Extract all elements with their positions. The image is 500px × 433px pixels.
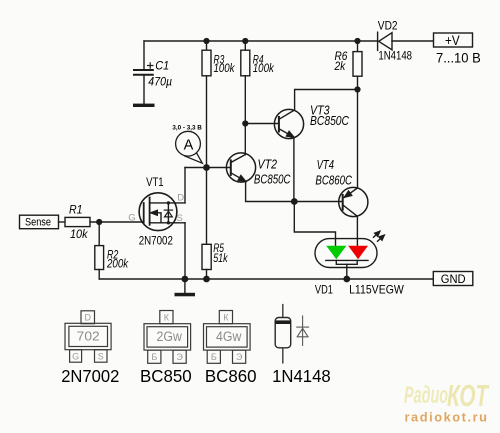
wire R4 top lead	[244, 41, 246, 50]
1N4148 diode symbol line	[302, 315, 304, 346]
package BC860 top pin	[219, 311, 232, 324]
junction VT1 source at rail	[182, 276, 189, 283]
junction R1/R2/gate	[96, 219, 102, 225]
wire Sense to R1	[59, 221, 66, 223]
LED light arrow 1	[374, 231, 380, 237]
wire LED cathodes common	[336, 260, 357, 264]
wire C1 top lead	[143, 41, 145, 69]
svg-text:К: К	[223, 312, 229, 322]
wire VT4 base	[294, 201, 342, 203]
LED light arrow 2	[378, 235, 385, 241]
svg-text:BC860C: BC860C	[315, 174, 352, 188]
svg-text:10k: 10k	[70, 229, 89, 241]
mosfet VT1 source line	[150, 222, 185, 224]
package BC850 body	[144, 324, 191, 350]
wire top supply rail	[144, 40, 378, 42]
diode VD2 triangle	[379, 33, 392, 50]
wire VT1 drain up to node A	[184, 168, 186, 203]
wire R1 to VT1 gate	[90, 221, 144, 223]
1N4148 diode symbol cathode bar	[296, 326, 309, 328]
svg-text:3,0 - 3,3 В: 3,0 - 3,3 В	[172, 125, 201, 132]
package BC850 top pin	[160, 311, 173, 324]
LED VD1 body outline	[315, 239, 377, 268]
transistor VT3 collector	[279, 90, 358, 120]
svg-text:G: G	[128, 213, 135, 224]
mosfet VT1 body diode triangle	[165, 211, 173, 217]
transistor VT2 base bar	[230, 160, 232, 175]
wire R2 bottom lead	[98, 270, 100, 280]
transistor VT3 emitter	[279, 129, 294, 202]
svg-text:GND: GND	[441, 272, 466, 286]
mosfet VT1 gate bar	[143, 203, 145, 223]
wire R5 bottom lead	[206, 270, 208, 280]
wire R2 top lead	[98, 222, 100, 246]
mosfet VT1 body diode top dot	[167, 201, 170, 204]
package 2N7002 body	[65, 323, 111, 349]
junction top rail R3	[203, 38, 209, 44]
capacitor C1 plates	[134, 70, 153, 75]
mosfet VT1 substrate arrowhead	[151, 210, 158, 215]
junction node A	[203, 164, 210, 171]
wire R4 bottom down to VT2 collector	[244, 76, 246, 155]
resistor R5	[202, 244, 211, 269]
wire R3 bottom down to R5 through node A	[206, 76, 208, 245]
svg-text:VT2: VT2	[258, 158, 278, 172]
package BC850 pin B	[148, 350, 161, 363]
ground symbol under C1	[133, 104, 155, 107]
svg-text:КОТ: КОТ	[447, 378, 490, 413]
ground symbol under VT1	[184, 279, 186, 293]
transistor VT2 emitter	[231, 173, 294, 202]
diode VD2 cathode bar	[377, 32, 379, 50]
junction emitters node	[291, 198, 298, 205]
svg-text:470µ: 470µ	[148, 74, 172, 88]
wire R6 bottom lead	[357, 76, 359, 89]
svg-text:1N4148: 1N4148	[272, 366, 331, 386]
svg-text:200k: 200k	[106, 258, 129, 270]
svg-text:BC850C: BC850C	[254, 173, 291, 187]
svg-text:L115VEGW: L115VEGW	[349, 283, 404, 297]
node A balloon	[176, 131, 203, 163]
transistor VT3 base bar	[278, 117, 280, 132]
svg-text:BC860: BC860	[205, 366, 257, 386]
svg-text:1N4148: 1N4148	[378, 49, 412, 63]
resistor R6	[353, 52, 362, 77]
svg-text:BC850: BC850	[140, 366, 192, 386]
package BC860 body	[204, 324, 251, 350]
svg-text:VD1: VD1	[315, 283, 333, 297]
mosfet VT1 circle	[139, 193, 177, 231]
package BC850 body inner	[147, 327, 188, 347]
mosfet VT1 body diode bottom dot	[167, 221, 170, 224]
svg-text:S: S	[177, 213, 183, 224]
svg-text:VT4: VT4	[317, 158, 334, 172]
transistor VT4 base bar	[342, 195, 344, 210]
junction R5 at rail	[203, 276, 210, 283]
transistor VT3 circle	[274, 109, 303, 138]
svg-text:4Gw: 4Gw	[216, 329, 242, 344]
wire R3 top lead	[206, 41, 208, 50]
wire green LED anode branch	[294, 202, 335, 246]
svg-text:Радио: Радио	[404, 382, 448, 409]
svg-text:+V: +V	[445, 32, 460, 48]
junction top rail R4	[242, 38, 248, 44]
wire diode anode to +V box	[392, 40, 434, 42]
svg-text:D: D	[84, 312, 91, 322]
transistor VT2 circle	[226, 153, 255, 182]
package 1N4148 bottom lead	[282, 348, 284, 364]
box GND terminal	[433, 272, 473, 286]
svg-text:Э: Э	[176, 352, 183, 362]
svg-text:702: 702	[77, 329, 100, 343]
svg-text:Б: Б	[211, 352, 217, 362]
LED VD1 red chip	[348, 246, 368, 260]
package BC860 pin E	[233, 350, 246, 363]
resistor R4	[241, 50, 250, 76]
svg-text:VD2: VD2	[378, 18, 398, 32]
package 2N7002 pin G	[70, 350, 82, 363]
svg-text:Э: Э	[236, 352, 243, 362]
svg-text:BC850C: BC850C	[310, 114, 350, 128]
resistor R3	[202, 50, 211, 76]
mosfet VT1 body diode line	[167, 203, 169, 223]
svg-text:2k: 2k	[334, 61, 347, 73]
wire LED common stem to ground rail	[346, 264, 348, 279]
svg-text:VT1: VT1	[146, 175, 164, 189]
transistor VT4 collector down to red LED	[343, 205, 357, 246]
package 1N4148 top lead	[282, 304, 284, 318]
package 1N4148 body	[275, 318, 291, 348]
box +V terminal	[434, 33, 473, 47]
LED VD1 green chip	[326, 246, 346, 260]
transistor VT3 emitter arrow	[287, 131, 294, 137]
svg-text:Sense: Sense	[25, 216, 51, 228]
svg-text:R1: R1	[69, 205, 83, 217]
svg-text:S: S	[98, 351, 104, 361]
junction VT3 base tap	[242, 120, 248, 126]
transistor VT4 circle	[339, 187, 368, 216]
svg-text:G: G	[72, 351, 79, 361]
LED VD1 green cathode bar	[326, 259, 347, 261]
svg-text:2Gw: 2Gw	[157, 329, 183, 344]
1N4148 diode symbol triangle	[297, 328, 308, 337]
svg-text:radiokot.ru: radiokot.ru	[405, 411, 489, 425]
wire VT1 source down to ground rail	[184, 223, 186, 279]
resistor R1	[65, 217, 90, 226]
package 2N7002 top pin	[81, 311, 95, 324]
svg-text:К: К	[164, 312, 170, 322]
transistor VT2 emitter arrow	[238, 176, 245, 182]
svg-text:C1: C1	[155, 58, 169, 72]
svg-text:7...10 В: 7...10 В	[436, 50, 481, 66]
svg-text:51k: 51k	[213, 253, 228, 265]
svg-text:Б: Б	[151, 352, 157, 362]
resistor R2	[95, 246, 104, 270]
wire R6 top lead	[357, 41, 359, 52]
junction R6 bottom	[354, 86, 360, 92]
transistor VT4 emitter from R6 node	[344, 90, 357, 198]
LED VD1 red cathode bar	[348, 259, 368, 261]
wire C1 bottom lead	[143, 76, 145, 104]
wire VT3 base from R4 line	[245, 123, 279, 125]
transistor VT2 collector	[231, 155, 246, 163]
package BC860 pin B	[207, 350, 220, 363]
svg-text:100k: 100k	[214, 63, 236, 75]
package BC850 pin E	[173, 350, 186, 363]
box Sense terminal	[20, 215, 59, 229]
junction LED stem at rail	[343, 276, 350, 283]
mosfet VT1 body diode cathode bar	[164, 209, 172, 211]
svg-text:A: A	[184, 137, 194, 153]
svg-text:D: D	[177, 193, 184, 204]
package 1N4148 cathode band	[275, 320, 290, 324]
package BC860 body inner	[207, 327, 248, 347]
transistor VT4 emitter arrow	[344, 191, 351, 197]
svg-text:2N7002: 2N7002	[61, 366, 119, 386]
svg-text:2N7002: 2N7002	[139, 234, 173, 248]
capacitor C1 plus sign	[148, 63, 153, 68]
package 2N7002 body inner	[69, 326, 108, 346]
junction top rail R6/VD2	[354, 38, 360, 44]
mosfet VT1 drain line	[150, 202, 185, 204]
mosfet VT1 substrate arrow line	[151, 213, 161, 223]
svg-text:100k: 100k	[253, 63, 275, 75]
wire VT2 base from node A	[185, 167, 231, 169]
mosfet VT1 channel bar	[149, 198, 151, 225]
wire ground rail	[99, 278, 433, 280]
package 2N7002 pin S	[95, 350, 108, 363]
